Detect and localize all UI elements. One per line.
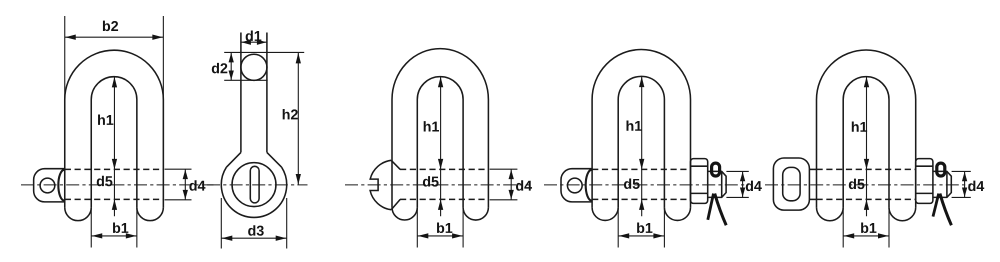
dimension d3: extension lines [220, 198, 222, 249]
drawing 3 pin head top chamfer [391, 160, 400, 169]
label h1 of drawing 5 [852, 121, 867, 131]
dimension b1 of drawing 4: extension lines [617, 207, 619, 247]
dimension b1 of drawing 3: extension lines [416, 207, 418, 247]
label h1 of drawing 4 [627, 120, 642, 130]
drawing 1 pin eye hole [40, 178, 55, 193]
drawing 5: D-shackle with square eye pin, nut and cotter, front view [765, 50, 984, 248]
dimension h2: dimension line with arrows [297, 52, 299, 184]
label b2 [103, 21, 118, 32]
label d4 of drawing 5 [968, 181, 984, 192]
label b1 of drawing 5 [861, 223, 876, 234]
label h2 [283, 109, 298, 119]
drawing 1 body outer outline [65, 50, 164, 207]
label d4 of drawing 3 [516, 180, 532, 191]
label d5 of drawing 5 [849, 179, 865, 190]
dimension b2: dimension line with arrows [65, 36, 164, 38]
dimension d4 of drawing 1: extension lines [165, 168, 192, 170]
dimension line h1/d5 of drawing 3 [440, 77, 442, 216]
drawing 2: shackle side view with slotted pin head [207, 31, 308, 249]
dimension b1 of drawing 4: dimension line with arrows [618, 235, 664, 237]
drawing 3: D-shackle with countersunk slotted pin, front view [345, 49, 532, 248]
drawing 3 body inner outline [417, 77, 463, 208]
label d2 [212, 63, 228, 74]
label d5 of drawing 1 [97, 176, 113, 187]
dimension d4 of drawing 5: dimension line with arrows [964, 171, 966, 197]
drawing 1 body inner outline [91, 77, 137, 208]
drawing 4 pin head face arc [586, 170, 592, 201]
label d5 of drawing 3 [423, 176, 439, 187]
drawing 4 pin eye head outline [561, 169, 592, 202]
drawing 5 hidden pin bottom edge [817, 198, 916, 200]
label d4 of drawing 1 [189, 180, 205, 191]
drawing 4 nut facet lines [691, 165, 708, 167]
drawing 4 hidden pin top edge [592, 168, 690, 170]
label d5 of drawing 4 [624, 178, 640, 189]
drawing 5 right leg bottom cap [889, 207, 916, 220]
drawing 1 hidden pin top edge [65, 168, 164, 170]
drawing 3 hidden pin top edge [400, 168, 488, 170]
drawing 5 square eye pin head outline [773, 158, 809, 210]
centerline of pin, drawing 5 [765, 184, 971, 186]
dimension d4 of drawing 1: dimension line with arrows [184, 169, 186, 200]
dimension d4 of drawing 4: extension lines [726, 170, 748, 172]
dimension b1 of drawing 1: dimension line with arrows [91, 235, 137, 237]
drawing 1 right leg bottom cap [137, 207, 164, 220]
drawing 4: D-shackle with eye pin, nut and cotter, front view [544, 49, 762, 247]
drawing 4 left leg bottom cap [592, 207, 618, 220]
dimension d2: dimension line with arrows [230, 52, 232, 80]
dimension line h1/d5 of drawing 5 [866, 77, 868, 216]
dimension d1: dimension line with arrows [241, 41, 267, 43]
dimension b1 of drawing 5: extension lines [842, 207, 844, 247]
label h1 of drawing 3 [424, 121, 439, 131]
drawing 2 body side profile lines [240, 33, 242, 153]
drawing 4 cotter pin ring [712, 163, 720, 176]
drawing 3 body outer outline [392, 49, 488, 208]
drawing 5 cotter pin legs [933, 194, 939, 217]
dimension line h1/d5 of drawing 4 [641, 77, 643, 217]
centerline of pin, drawing 3 [345, 184, 530, 186]
label b1 of drawing 1 [113, 223, 128, 234]
drawing 2 bow cross-section circle [241, 54, 267, 80]
drawing 5 hidden pin top edge [817, 168, 916, 170]
dimension b1 of drawing 3: dimension line with arrows [417, 235, 463, 237]
centerline of pin, drawing 2 [207, 184, 308, 186]
drawing 2 left flare to eye boss [226, 152, 241, 167]
drawing 5 cotter pin ring [937, 163, 945, 176]
drawing 2 pin screw slot [250, 166, 259, 203]
drawing 5 nut facet lines [916, 165, 933, 167]
dimension d2: extension lines [224, 51, 304, 53]
dimension b1 of drawing 5: dimension line with arrows [843, 235, 889, 237]
label b1 of drawing 3 [437, 223, 452, 234]
drawing 4 hidden pin bottom edge [592, 198, 690, 200]
drawing 4 protruding pin tip [708, 171, 726, 197]
label d1 [246, 31, 262, 42]
label d3 [248, 225, 264, 236]
drawing 4 body outer outline [592, 49, 690, 207]
drawing 4 right leg bottom cap [664, 207, 690, 220]
drawing 5 pin tip chamfer line [946, 171, 948, 197]
drawing 4 body inner outline [618, 76, 664, 207]
drawing 3 right leg bottom cap [463, 207, 488, 220]
drawing 1 pin head face arc [58, 170, 64, 201]
drawing 5 body outer outline [817, 50, 916, 207]
dimension b2: extension lines [64, 16, 66, 100]
label b1 of drawing 4 [637, 223, 652, 234]
drawing 1 hidden pin bottom edge [65, 198, 164, 200]
drawing 5 left leg bottom cap [817, 207, 844, 220]
drawing 3 left leg bottom cap [392, 207, 417, 220]
dimension line h1/d5 of drawing 1 [113, 77, 115, 216]
dimension d4 of drawing 3: extension lines [490, 168, 518, 170]
centerline of pin, drawing 4 [544, 184, 749, 186]
drawing 4 pin tip chamfer line [721, 171, 723, 197]
drawing 1 left leg bottom cap [65, 207, 92, 220]
drawing 3 pin head bottom chamfer [391, 199, 400, 209]
dimension d4 of drawing 4: dimension line with arrows [742, 171, 744, 197]
drawing 3 slotted countersunk pin head dome [370, 160, 391, 209]
drawing 2 right flare to eye boss [267, 152, 282, 167]
drawing 5 pin shank top edge at head [809, 168, 816, 170]
drawing 5 square eye pin head hole [783, 167, 800, 200]
drawing 4 cotter pin legs [708, 194, 714, 220]
dimension d3: dimension line with arrows [221, 237, 286, 239]
dimension d4 of drawing 3: dimension line with arrows [510, 169, 512, 200]
label d4 of drawing 4 [746, 181, 762, 192]
drawing 4 pin eye hole [567, 178, 582, 193]
drawing 3 hidden pin bottom edge [400, 198, 488, 200]
drawing 5 protruding pin tip [933, 171, 951, 197]
drawing 5 pin shank bottom edge at head [809, 198, 816, 200]
drawing 2 pin head circle [232, 163, 276, 207]
dimension b1 of drawing 1: extension lines [90, 207, 92, 247]
drawing 1 pin eye head outline [34, 169, 65, 202]
label h1 of drawing 1 [98, 115, 113, 125]
centerline of pin, drawing 1 [21, 184, 214, 186]
dimension d4 of drawing 5: extension lines [952, 170, 971, 172]
drawing 1: D-shackle with eye pin, front view [21, 16, 214, 248]
drawing 4 hex nut [691, 159, 708, 204]
drawing 5 body inner outline [843, 77, 889, 208]
drawing 5 hex nut [916, 159, 933, 204]
drawing 2 eye boss arc [221, 167, 286, 217]
